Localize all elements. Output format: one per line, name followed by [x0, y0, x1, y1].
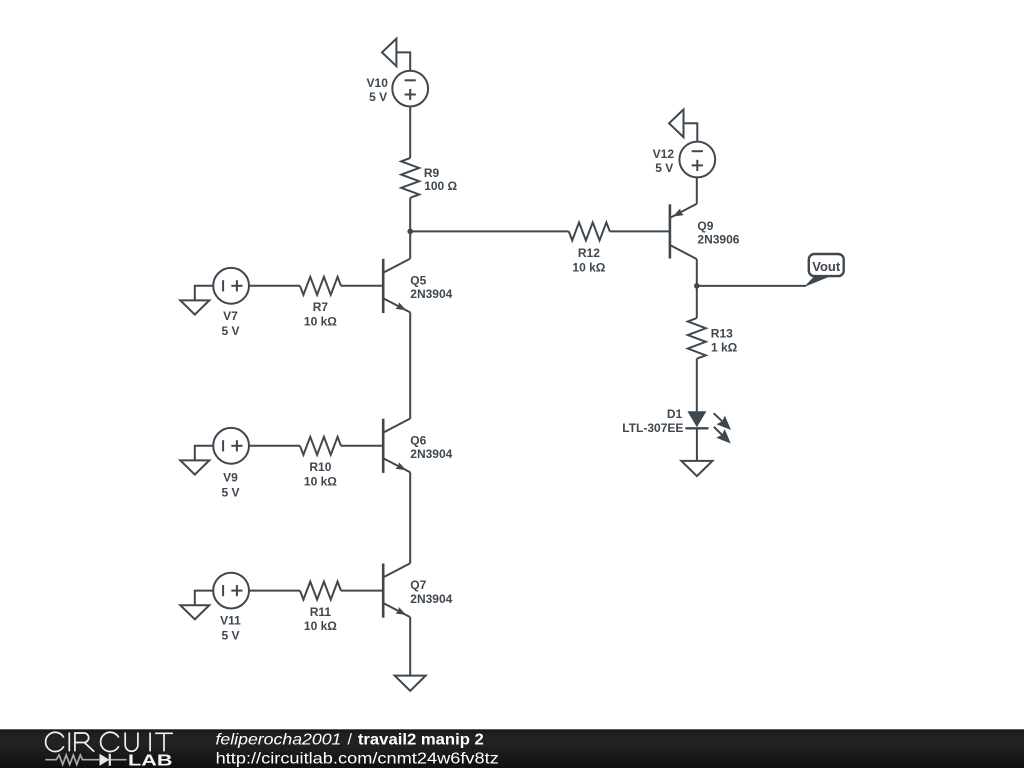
svg-text:2N3904: 2N3904: [410, 287, 452, 301]
svg-text:Vout: Vout: [812, 259, 841, 274]
svg-text:10 kΩ: 10 kΩ: [304, 314, 337, 328]
svg-text:V11: V11: [220, 614, 241, 628]
svg-text:5 V: 5 V: [221, 628, 239, 642]
svg-text:V7: V7: [223, 309, 238, 323]
svg-text:LTL-307EE: LTL-307EE: [622, 421, 683, 435]
svg-text:5 V: 5 V: [221, 324, 239, 338]
svg-text:1 kΩ: 1 kΩ: [711, 341, 738, 355]
svg-text:V12: V12: [653, 147, 675, 161]
svg-text:2N3906: 2N3906: [697, 233, 739, 247]
svg-text:R7: R7: [313, 300, 329, 314]
svg-text:R11: R11: [310, 605, 332, 619]
svg-text:R12: R12: [578, 246, 600, 260]
svg-text:Q5: Q5: [410, 274, 426, 288]
svg-text:5 V: 5 V: [221, 486, 239, 500]
svg-text:10 kΩ: 10 kΩ: [304, 474, 337, 488]
svg-text:10 kΩ: 10 kΩ: [304, 619, 337, 633]
svg-text:R9: R9: [424, 166, 440, 180]
svg-text:5 V: 5 V: [655, 161, 673, 175]
svg-text:Q7: Q7: [410, 578, 426, 592]
svg-text:LAB: LAB: [128, 752, 173, 768]
svg-text:5 V: 5 V: [369, 90, 387, 104]
svg-text:V10: V10: [367, 76, 389, 90]
svg-text:R10: R10: [309, 460, 331, 474]
svg-text:2N3904: 2N3904: [410, 592, 452, 606]
svg-text:R13: R13: [711, 327, 733, 341]
svg-text:2N3904: 2N3904: [410, 447, 452, 461]
svg-text:Q6: Q6: [410, 433, 426, 447]
svg-text:D1: D1: [667, 407, 683, 421]
svg-text:feliperocha2001: feliperocha2001: [216, 732, 342, 749]
svg-text:100 Ω: 100 Ω: [424, 179, 457, 193]
svg-text:Q9: Q9: [697, 219, 713, 233]
svg-text:V9: V9: [223, 471, 238, 485]
svg-text:http://circuitlab.com/cnmt24w6: http://circuitlab.com/cnmt24w6fv8tz: [216, 751, 499, 768]
svg-text:travail2 manip 2: travail2 manip 2: [358, 732, 484, 749]
svg-text:/: /: [347, 732, 352, 749]
svg-text:10 kΩ: 10 kΩ: [572, 260, 605, 274]
